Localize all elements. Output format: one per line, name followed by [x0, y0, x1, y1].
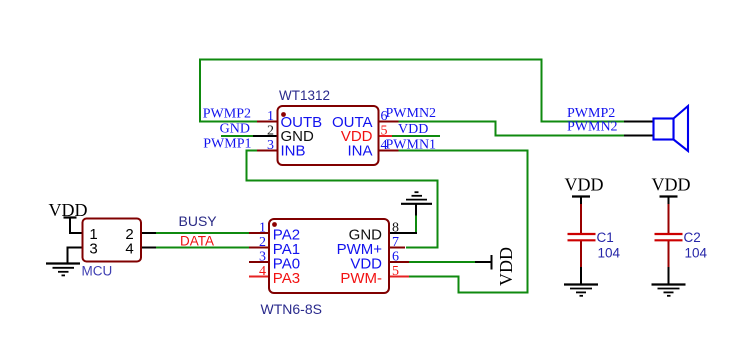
svg-text:1: 1	[267, 109, 274, 124]
svg-text:INA: INA	[347, 142, 372, 159]
svg-text:VDD: VDD	[496, 247, 516, 286]
svg-text:3: 3	[259, 250, 266, 265]
svg-text:GND: GND	[220, 122, 250, 137]
svg-text:4: 4	[125, 240, 133, 257]
svg-text:2: 2	[267, 124, 274, 139]
svg-text:PWMN2: PWMN2	[567, 119, 618, 134]
svg-text:VDD: VDD	[565, 175, 604, 195]
svg-text:BUSY: BUSY	[179, 213, 218, 229]
svg-text:VDD: VDD	[49, 200, 88, 220]
svg-text:C1: C1	[597, 230, 614, 245]
svg-text:4: 4	[259, 264, 266, 279]
svg-text:VDD: VDD	[398, 122, 428, 137]
svg-text:5: 5	[381, 124, 388, 139]
svg-text:2: 2	[259, 235, 266, 250]
svg-text:1: 1	[259, 221, 266, 236]
svg-text:DATA: DATA	[180, 233, 214, 248]
svg-text:6: 6	[392, 250, 399, 265]
svg-text:MCU: MCU	[82, 264, 113, 279]
svg-text:104: 104	[685, 246, 708, 261]
svg-text:7: 7	[392, 235, 399, 250]
svg-text:8: 8	[392, 221, 399, 236]
svg-text:6: 6	[381, 109, 388, 124]
svg-text:PWMN1: PWMN1	[386, 138, 437, 153]
svg-text:PWMP1: PWMP1	[203, 136, 251, 151]
svg-text:PWM-: PWM-	[340, 270, 382, 287]
svg-text:WTN6-8S: WTN6-8S	[261, 301, 322, 317]
svg-text:3: 3	[267, 138, 274, 153]
svg-text:PWMP2: PWMP2	[203, 107, 251, 122]
svg-text:PA3: PA3	[273, 270, 300, 287]
svg-text:PWMN2: PWMN2	[386, 106, 437, 121]
svg-text:104: 104	[598, 246, 621, 261]
svg-text:3: 3	[89, 240, 97, 257]
svg-text:VDD: VDD	[652, 175, 691, 195]
svg-text:5: 5	[392, 264, 399, 279]
svg-text:C2: C2	[684, 230, 701, 245]
svg-text:WT1312: WT1312	[279, 88, 330, 103]
svg-text:INB: INB	[281, 142, 306, 159]
svg-text:4: 4	[381, 138, 388, 153]
